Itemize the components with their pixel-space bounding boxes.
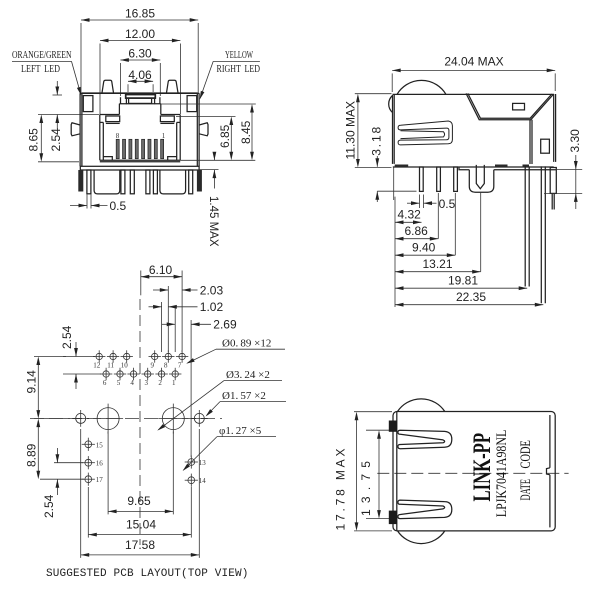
svg-text:LINK-PP: LINK-PP bbox=[469, 433, 496, 502]
svg-text:YELLOW: YELLOW bbox=[225, 50, 253, 61]
dim 2.54 (left top) bbox=[49, 81, 63, 152]
shield tab bottom-left bbox=[389, 511, 397, 524]
dim 8.45 bbox=[161, 104, 256, 160]
spring finger upper bbox=[398, 430, 452, 449]
hole 5 bbox=[117, 371, 123, 377]
body outline bbox=[393, 412, 555, 531]
vent hole on back bbox=[541, 139, 550, 153]
svg-text:2.54: 2.54 bbox=[60, 325, 74, 349]
svg-text:7: 7 bbox=[178, 362, 182, 370]
svg-text:10: 10 bbox=[121, 362, 129, 370]
svg-text:2.69: 2.69 bbox=[213, 318, 237, 332]
dim 9.14 bbox=[25, 357, 67, 419]
svg-text:φ1. 27 ×5: φ1. 27 ×5 bbox=[219, 425, 262, 437]
svg-text:9.14: 9.14 bbox=[25, 370, 39, 394]
contact comb (8 pins) bbox=[116, 139, 163, 158]
mounting hole 3.24 bbox=[97, 408, 119, 430]
svg-text:Ø0. 89 ×12: Ø0. 89 ×12 bbox=[222, 337, 271, 349]
dashed centerline bbox=[377, 472, 568, 474]
callout 1.57 bbox=[204, 390, 286, 418]
spring finger lower bbox=[398, 500, 452, 519]
svg-text:CODE: CODE bbox=[518, 440, 534, 468]
leg 1 bbox=[420, 167, 424, 191]
dim 4.06 bbox=[128, 68, 153, 92]
cavity corner feet bbox=[103, 157, 112, 161]
svg-text:6.30: 6.30 bbox=[128, 47, 152, 61]
dim 3.18 bbox=[370, 126, 417, 202]
dim 16.85 bbox=[81, 7, 198, 93]
svg-text:1: 1 bbox=[172, 379, 176, 387]
base strip bbox=[80, 166, 199, 170]
svg-text:ORANGE/GREEN: ORANGE/GREEN bbox=[12, 50, 72, 61]
svg-text:6: 6 bbox=[103, 379, 107, 387]
hole 12 bbox=[96, 353, 102, 359]
hole 3 bbox=[145, 371, 151, 377]
svg-text:1.02: 1.02 bbox=[200, 300, 224, 314]
shield outline bbox=[80, 93, 199, 166]
side view of RJ45 jack bbox=[344, 55, 583, 308]
vent hole on chamfer bbox=[513, 103, 525, 110]
body outline bbox=[393, 94, 556, 164]
svg-text:Ø3. 24 ×2: Ø3. 24 ×2 bbox=[226, 369, 270, 381]
bottom EMI arc bbox=[398, 531, 445, 544]
hole 11 bbox=[110, 353, 116, 359]
dim 12.00 bbox=[100, 27, 180, 114]
dim 1.45 MAX bbox=[180, 152, 255, 247]
svg-text:2.54: 2.54 bbox=[49, 128, 63, 152]
dim 0.5 (leg width) bbox=[407, 195, 456, 212]
right edge inner line with notch bbox=[547, 415, 550, 527]
svg-text:6.85: 6.85 bbox=[218, 124, 232, 148]
front top corner arc bbox=[389, 96, 393, 113]
svg-text:4.32: 4.32 bbox=[398, 208, 422, 222]
hole 4 bbox=[130, 371, 136, 377]
front view of RJ45 jack bbox=[12, 7, 260, 247]
svg-text:17: 17 bbox=[96, 476, 104, 484]
top EMI arc bbox=[398, 399, 445, 412]
latch hooks bbox=[106, 116, 175, 123]
svg-text:RIGHT LED: RIGHT LED bbox=[217, 64, 261, 75]
dim 1.02 bbox=[149, 300, 224, 352]
dim 17.58 bbox=[81, 429, 200, 558]
shield tab top-left bbox=[389, 421, 397, 432]
dim 19.81 bbox=[395, 274, 527, 291]
top view of RJ45 jack bbox=[334, 399, 569, 544]
left column holes 15,16,17 bbox=[82, 438, 104, 486]
back leg stub bbox=[550, 168, 556, 210]
dim 9.65 bbox=[108, 432, 173, 515]
dim 13.75 bbox=[359, 430, 393, 518]
svg-text:12.00: 12.00 bbox=[125, 27, 155, 41]
hole 1.57 bbox=[76, 413, 86, 423]
top EMI arc bbox=[397, 80, 446, 94]
dim 8.65 bbox=[27, 115, 100, 162]
svg-text:11: 11 bbox=[107, 362, 114, 370]
medium holes 1.57 bbox=[72, 410, 207, 427]
dim 2.54 (bottom left) bbox=[42, 448, 83, 518]
svg-text:22.35: 22.35 bbox=[456, 290, 486, 304]
dim 22.35 bbox=[395, 290, 543, 307]
cavity side walls bbox=[100, 115, 180, 161]
svg-text:8.45: 8.45 bbox=[239, 120, 253, 144]
svg-text:16.85: 16.85 bbox=[125, 7, 155, 21]
dim 6.10 bbox=[141, 263, 182, 352]
hole 8 bbox=[165, 353, 171, 359]
hole 16 bbox=[85, 459, 92, 466]
svg-text:SUGGESTED PCB LAYOUT(TOP VIEW): SUGGESTED PCB LAYOUT(TOP VIEW) bbox=[46, 568, 249, 580]
svg-text:16: 16 bbox=[96, 460, 104, 468]
svg-text:3.30: 3.30 bbox=[568, 129, 582, 153]
hole 1 bbox=[172, 371, 178, 377]
svg-text:9: 9 bbox=[150, 362, 154, 370]
svg-text:8.89: 8.89 bbox=[25, 443, 39, 467]
PCB locating post bbox=[469, 165, 494, 192]
svg-text:1.45 MAX: 1.45 MAX bbox=[207, 196, 219, 247]
small holes row lower (6,5,4,3,2,1) bbox=[100, 368, 181, 387]
svg-text:8.65: 8.65 bbox=[27, 128, 41, 152]
dim 17.78 MAX bbox=[334, 412, 393, 531]
central latch boss bbox=[126, 93, 156, 104]
chamfered top-back face bbox=[466, 93, 554, 164]
svg-text:6.86: 6.86 bbox=[405, 224, 429, 238]
dim 24.04 MAX bbox=[392, 55, 555, 93]
left LED window bbox=[83, 96, 93, 112]
dim 0.5 (pin width) bbox=[70, 195, 127, 214]
hole 17 bbox=[85, 476, 92, 483]
dim 4.32 bbox=[395, 208, 422, 225]
spring finger cutout bbox=[398, 121, 452, 145]
hole 1.57 bbox=[194, 413, 204, 423]
svg-text:0.5: 0.5 bbox=[439, 197, 456, 211]
dim 13.21 bbox=[395, 192, 481, 274]
label left LED bbox=[12, 50, 83, 96]
svg-text:15: 15 bbox=[96, 441, 104, 449]
svg-text:13: 13 bbox=[199, 459, 207, 467]
svg-text:17.58: 17.58 bbox=[125, 538, 155, 552]
svg-text:0.5: 0.5 bbox=[110, 199, 127, 213]
dim 8.89 bbox=[25, 419, 85, 480]
long back legs bbox=[525, 166, 545, 303]
svg-text:9.65: 9.65 bbox=[127, 494, 151, 508]
dim 2.54 (top left) bbox=[60, 325, 101, 389]
dim 6.86 bbox=[395, 193, 438, 241]
left side ear bbox=[71, 123, 80, 136]
big mounting holes 3.24 bbox=[93, 404, 188, 434]
svg-text:1: 1 bbox=[162, 132, 166, 140]
hole 13 bbox=[188, 459, 195, 466]
svg-text:24.04 MAX: 24.04 MAX bbox=[444, 55, 503, 69]
dim 2.69 bbox=[162, 308, 237, 457]
svg-text:Ø1. 57 ×2: Ø1. 57 ×2 bbox=[222, 390, 266, 402]
svg-text:5: 5 bbox=[117, 379, 121, 387]
hole 6 bbox=[103, 371, 109, 377]
callout 1.27 bbox=[181, 425, 276, 473]
svg-text:2.54: 2.54 bbox=[42, 494, 56, 518]
leg 3 bbox=[454, 167, 458, 191]
leg 2 bbox=[437, 167, 441, 191]
dim 15.04 bbox=[88, 487, 191, 538]
cavity floor bbox=[100, 160, 180, 162]
dim 2.03 bbox=[153, 283, 223, 352]
svg-text:13.21: 13.21 bbox=[423, 257, 453, 271]
right column holes 13,14 bbox=[185, 455, 207, 486]
jack cavity upper step bbox=[100, 97, 180, 114]
dim 11.30 MAX bbox=[344, 94, 392, 168]
svg-text:12: 12 bbox=[93, 362, 101, 370]
hole 7 bbox=[179, 353, 185, 359]
callout 0.89 bbox=[185, 337, 285, 365]
top mounting tabs bbox=[102, 80, 114, 93]
svg-text:2: 2 bbox=[158, 379, 162, 387]
svg-text:LPJK7041A98NL: LPJK7041A98NL bbox=[494, 430, 510, 518]
dim 9.40 bbox=[395, 193, 455, 257]
svg-text:8: 8 bbox=[164, 362, 168, 370]
svg-text:3.18: 3.18 bbox=[370, 126, 384, 155]
right LED window bbox=[187, 96, 197, 112]
hole 15 bbox=[85, 441, 92, 448]
svg-text:6.10: 6.10 bbox=[149, 263, 173, 277]
svg-text:17.78 MAX: 17.78 MAX bbox=[334, 449, 348, 531]
svg-text:19.81: 19.81 bbox=[448, 274, 478, 288]
svg-text:3: 3 bbox=[144, 379, 148, 387]
svg-text:4: 4 bbox=[130, 379, 134, 387]
legs and posts bbox=[78, 170, 202, 194]
right side ear bbox=[199, 123, 208, 136]
common left extension line bbox=[393, 167, 395, 200]
dim 3.30 bbox=[544, 129, 582, 209]
svg-text:DATE: DATE bbox=[518, 479, 534, 501]
small holes row upper (12,11,10,9,8,7) bbox=[93, 350, 188, 369]
hole 9 bbox=[152, 353, 158, 359]
callout 3.24 bbox=[156, 369, 282, 432]
hole 14 bbox=[188, 477, 195, 484]
dim 6.85 bbox=[176, 117, 236, 161]
svg-text:11.30 MAX: 11.30 MAX bbox=[344, 101, 358, 159]
hole 2 bbox=[158, 371, 164, 377]
svg-text:4.06: 4.06 bbox=[128, 68, 152, 82]
vertical centerline bbox=[139, 299, 141, 545]
svg-text:8: 8 bbox=[116, 132, 120, 140]
hole 10 bbox=[124, 353, 130, 359]
label right LED bbox=[198, 50, 260, 100]
svg-text:LEFT LED: LEFT LED bbox=[21, 64, 60, 75]
body bottom edge bbox=[393, 165, 556, 170]
svg-text:2.03: 2.03 bbox=[200, 283, 224, 297]
horizontal centerline bbox=[30, 418, 222, 420]
svg-text:15.04: 15.04 bbox=[126, 518, 156, 532]
svg-text:14: 14 bbox=[199, 477, 207, 485]
svg-text:9.40: 9.40 bbox=[412, 241, 436, 255]
suggested PCB layout view bbox=[25, 263, 287, 580]
mounting hole 3.24 bbox=[162, 408, 184, 430]
dim 6.30 bbox=[120, 47, 160, 97]
